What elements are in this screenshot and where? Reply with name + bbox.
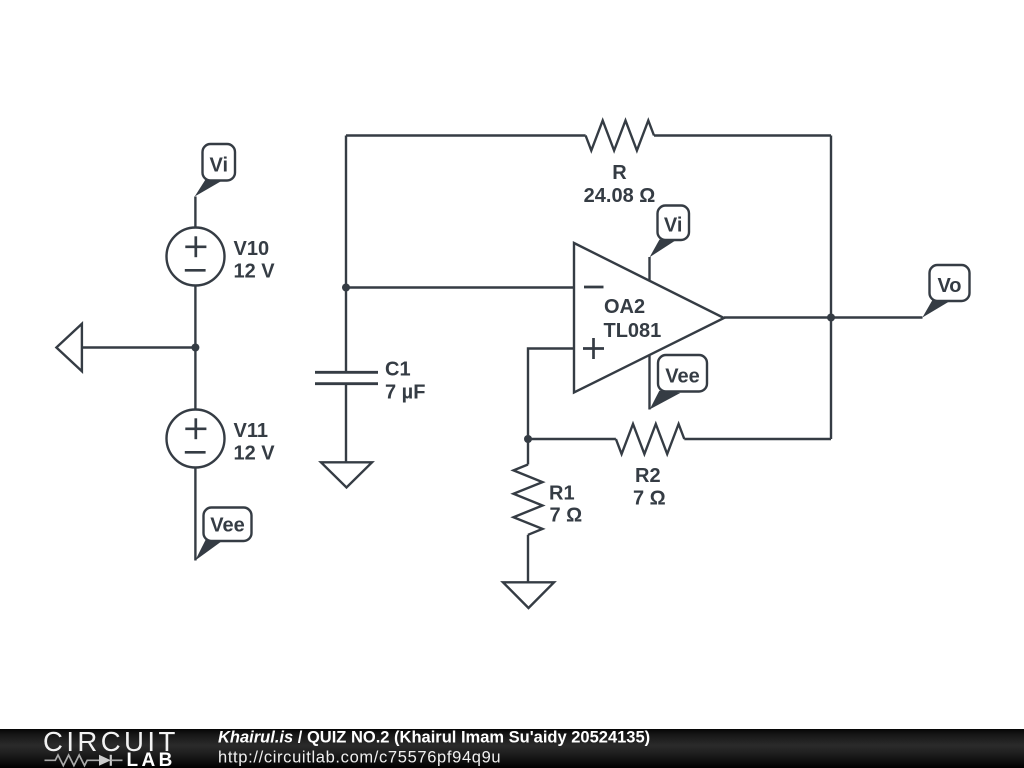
capacitor C1 bbox=[315, 372, 378, 383]
svg-text:Vee: Vee bbox=[210, 515, 244, 537]
svg-text:Vo: Vo bbox=[937, 275, 961, 297]
ground below R1 bbox=[503, 582, 554, 608]
svg-text:Vee: Vee bbox=[665, 366, 699, 388]
svg-text:http://circuitlab.com/c75576pf: http://circuitlab.com/c75576pf94q9u bbox=[218, 749, 501, 767]
footer bar bbox=[0, 729, 1024, 768]
node Vee flag (op-amp V-) bbox=[650, 355, 707, 409]
resistor R2 bbox=[616, 424, 684, 454]
wire R2 to right vertical bbox=[684, 438, 831, 440]
node Vo flag (output) bbox=[922, 265, 969, 318]
label R1 7 ohm bbox=[549, 483, 582, 527]
junction node output bbox=[827, 314, 835, 322]
label R 24.08 ohm bbox=[584, 162, 656, 207]
wire output to Vo flag bbox=[831, 316, 923, 318]
op-amp OA2 bbox=[574, 243, 724, 393]
wire node to R2 bbox=[528, 438, 616, 440]
svg-text:LAB: LAB bbox=[127, 750, 176, 768]
wire op-amp V+ pin bbox=[648, 257, 650, 281]
node Vi flag (source top) bbox=[195, 144, 235, 197]
wire node to C1 bbox=[345, 288, 347, 373]
svg-text:R1: R1 bbox=[549, 483, 575, 505]
label OA2 TL081 bbox=[604, 296, 662, 342]
svg-text:R: R bbox=[612, 162, 627, 184]
voltage source V11 bbox=[167, 410, 225, 468]
svg-text:V10: V10 bbox=[234, 238, 270, 260]
resistor R bbox=[586, 121, 654, 151]
wire op-amp V- pin bbox=[648, 356, 650, 410]
svg-text:V11: V11 bbox=[234, 420, 268, 442]
wire left vertical from top bbox=[345, 136, 347, 288]
wire node to R1 bbox=[527, 439, 529, 465]
svg-text:7 Ω: 7 Ω bbox=[633, 488, 666, 510]
input terminal arrow bbox=[56, 324, 82, 372]
junction node between V10 and V11 bbox=[191, 344, 199, 352]
resistor R1 bbox=[514, 465, 543, 535]
junction node inverting input bbox=[342, 284, 350, 292]
wire C1 to ground bbox=[345, 384, 347, 463]
label R2 7 ohm bbox=[633, 465, 666, 510]
svg-text:Khairul.is / QUIZ NO.2 (Khairu: Khairul.is / QUIZ NO.2 (Khairul Imam Su'… bbox=[218, 729, 650, 747]
node Vi flag (op-amp V+) bbox=[650, 206, 689, 258]
svg-text:7 µF: 7 µF bbox=[385, 382, 425, 404]
ground below C1 bbox=[321, 462, 372, 487]
wire Vi flag to V10 bbox=[194, 197, 196, 228]
wire V11 to Vee flag bbox=[194, 468, 196, 561]
svg-text:C1: C1 bbox=[385, 359, 411, 381]
label V10 12 V bbox=[234, 238, 276, 283]
CircuitLab logo resistor-diode squiggle bbox=[45, 755, 123, 766]
svg-text:12 V: 12 V bbox=[234, 261, 276, 283]
voltage source V10 bbox=[167, 228, 225, 286]
wire op-amp output bbox=[724, 316, 831, 318]
label V11 12 V bbox=[234, 420, 276, 465]
svg-text:12 V: 12 V bbox=[234, 443, 276, 465]
wire top feedback left bbox=[346, 134, 586, 136]
wire R1 to ground bbox=[527, 535, 529, 583]
svg-text:Vi: Vi bbox=[664, 215, 683, 237]
label C1 7 uF bbox=[385, 359, 425, 404]
wire arrow to node bbox=[82, 346, 195, 348]
svg-text:Vi: Vi bbox=[210, 154, 229, 176]
wire top feedback right bbox=[654, 134, 831, 136]
wire node to V11 bbox=[194, 348, 196, 410]
svg-text:OA2: OA2 bbox=[604, 296, 645, 318]
wire V10 to node bbox=[194, 286, 196, 348]
svg-text:R2: R2 bbox=[635, 465, 661, 487]
svg-text:24.08 Ω: 24.08 Ω bbox=[584, 185, 656, 207]
wire to inverting input bbox=[346, 286, 574, 288]
svg-text:7 Ω: 7 Ω bbox=[550, 505, 583, 527]
wire non-inverting input bbox=[528, 349, 574, 440]
node Vee flag (source bottom) bbox=[195, 508, 251, 561]
junction node non-inverting bbox=[524, 435, 532, 443]
wire right vertical (feedback) bbox=[830, 136, 832, 440]
svg-text:TL081: TL081 bbox=[604, 320, 662, 342]
